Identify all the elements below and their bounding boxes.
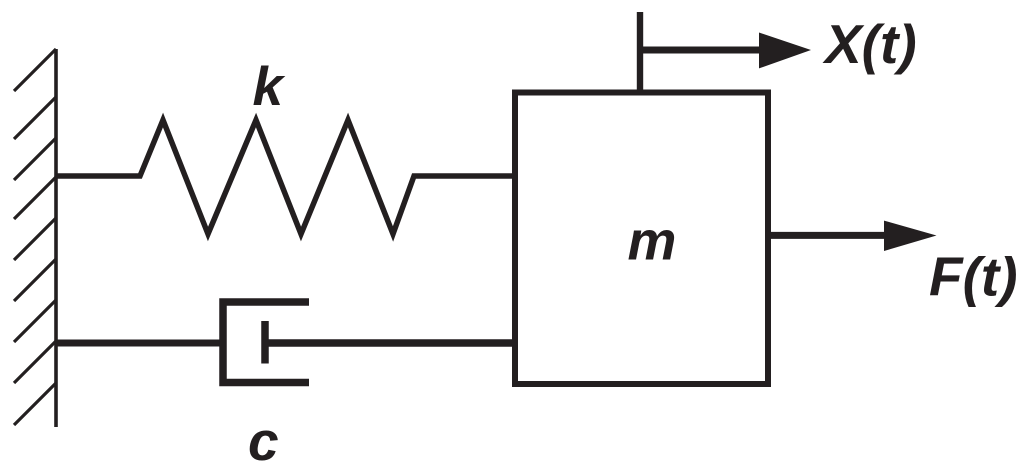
svg-text:X(t): X(t): [822, 13, 917, 75]
svg-text:k: k: [253, 55, 286, 117]
svg-text:F(t): F(t): [929, 246, 1018, 308]
svg-text:m: m: [628, 210, 677, 272]
svg-text:c: c: [248, 410, 279, 468]
